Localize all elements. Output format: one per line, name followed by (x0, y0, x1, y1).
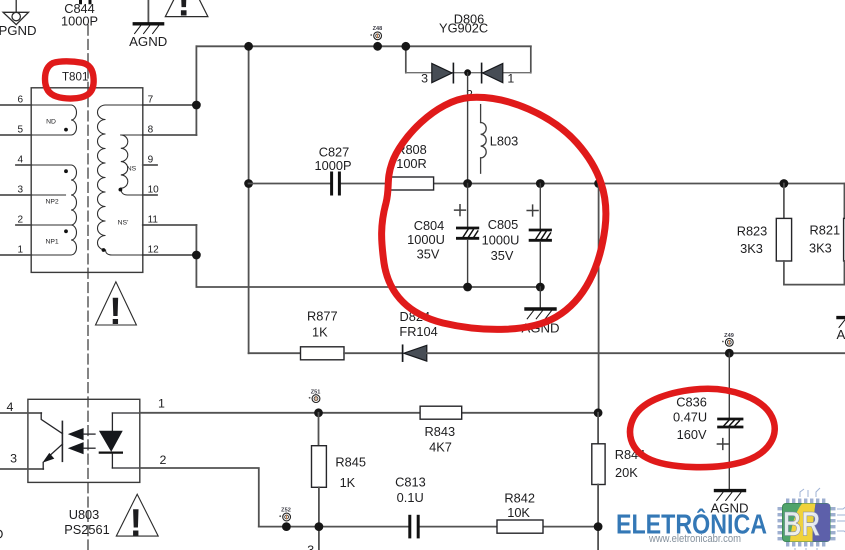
test point Z51 (309, 389, 321, 402)
svg-text:35V: 35V (491, 248, 514, 263)
svg-text:T801: T801 (62, 71, 88, 84)
svg-text:1000U: 1000U (482, 232, 520, 247)
polarity dot ND (64, 128, 68, 132)
junction C804 bottom (463, 283, 472, 292)
svg-text:U803: U803 (69, 507, 100, 522)
resistor R844 20K (597, 413, 599, 444)
svg-text:0.47U: 0.47U (673, 410, 707, 425)
transformer T801 (0, 71, 159, 273)
svg-text:2: 2 (17, 215, 23, 226)
svg-text:100R: 100R (396, 156, 427, 171)
optocoupler U803 PS2561 (0, 396, 167, 482)
ground AGND symbol (top) (134, 0, 162, 34)
svg-text:3: 3 (421, 72, 428, 86)
watermark chip logo BR (778, 488, 845, 550)
junction bus / C805 (536, 179, 545, 188)
ground AGND symbol (right edge, clipped) (838, 318, 845, 328)
red annotation circle around C836 (630, 389, 775, 467)
diode D824 FR104 (402, 345, 404, 361)
svg-text:0.1U: 0.1U (397, 490, 424, 505)
svg-text:8: 8 (148, 125, 154, 136)
svg-text:6: 6 (17, 95, 23, 106)
junction D806 pin 2 node (464, 69, 471, 76)
junction R845 bottom (315, 522, 324, 531)
wire D806 lower rail (406, 72, 531, 74)
pin 3 stub (0, 468, 43, 470)
winding NP2 (pins 4-3-2) (31, 165, 76, 225)
svg-text:L803: L803 (490, 133, 518, 148)
capacitor C813 0.1U (410, 516, 418, 537)
svg-text:R843: R843 (425, 424, 456, 439)
svg-text:R842: R842 (504, 491, 535, 506)
polarity dot NP2 (64, 169, 68, 173)
junction bus / vertical to R843 row (594, 179, 603, 188)
wire pin7 stub (143, 104, 197, 106)
phototransistor (41, 413, 62, 469)
polarity dot NS (119, 188, 123, 192)
svg-text:1000P: 1000P (314, 158, 351, 173)
wire D806 pin2 down to main bus (467, 73, 469, 184)
svg-text:C804: C804 (414, 218, 445, 233)
svg-text:10: 10 (148, 185, 160, 196)
wire secondary return row (pin12 to caps bottom) (143, 224, 197, 226)
svg-text:160V: 160V (677, 427, 707, 442)
svg-text:AGND: AGND (129, 34, 167, 49)
pin 10 stub (143, 194, 157, 196)
junction C805 bottom (536, 283, 545, 292)
svg-text:BR: BR (783, 506, 820, 544)
junction R845 top (314, 408, 323, 417)
watermark logo text ELETRONICABR (616, 508, 767, 545)
svg-text:PGND: PGND (0, 23, 37, 38)
diode D806 element b (pin 1 side) (483, 63, 503, 82)
warning triangle (below transformer) (96, 282, 137, 325)
test point Z49 (722, 333, 734, 346)
resistor R877 row wire (249, 352, 301, 354)
wire U803 pin1 row to R843/R844 (140, 412, 420, 414)
polarity dot NS' (102, 248, 106, 252)
svg-text:4: 4 (17, 155, 23, 166)
capacitor C844 (plates cut at top edge) (81, 0, 91, 3)
wire R877 to D824 (344, 352, 402, 354)
red annotation circle around T801 (45, 61, 94, 98)
junction pin7 node (192, 101, 201, 110)
light arrow a (68, 428, 84, 440)
svg-text:R823: R823 (737, 223, 768, 238)
capacitor C836 0.47U 160V (717, 353, 742, 489)
svg-text:1: 1 (507, 72, 514, 86)
svg-text:www.eletronicabr.com: www.eletronicabr.com (648, 533, 741, 545)
svg-text:10K: 10K (507, 505, 530, 520)
svg-text:C805: C805 (488, 217, 519, 232)
junction D806 left bracket on top bus (401, 42, 410, 51)
svg-text:!: ! (109, 291, 122, 333)
wire D806 left bracket (405, 46, 407, 72)
transformer body (31, 88, 143, 273)
ground PGND symbol (3, 0, 28, 25)
resistor R823 3K3 (776, 179, 845, 285)
winding NS (pins 8-10) (121, 135, 143, 195)
svg-text:3: 3 (307, 543, 314, 550)
svg-text:R821: R821 (810, 223, 841, 238)
svg-text:FR104: FR104 (399, 324, 437, 339)
resistor R845 1K (318, 413, 320, 446)
junction pin 12 node (192, 251, 201, 260)
svg-text:3K3: 3K3 (740, 241, 763, 256)
junction R844 bottom (594, 522, 603, 531)
wire U803 pin2 to bottom row (140, 468, 259, 527)
svg-text:C836: C836 (676, 395, 707, 410)
capacitor C827 (332, 173, 340, 194)
ground AGND symbol (under C836) (716, 491, 745, 501)
svg-text:5: 5 (17, 125, 23, 136)
svg-text:NP1: NP1 (45, 238, 58, 245)
svg-text:PS2561: PS2561 (64, 522, 110, 537)
warning triangle (top, clipped) (165, 0, 208, 17)
svg-text:1: 1 (158, 396, 165, 410)
svg-text:C813: C813 (395, 475, 426, 490)
ground AGND symbol (under C805) (526, 287, 555, 319)
svg-text:9: 9 (148, 155, 154, 166)
svg-text:NS': NS' (118, 219, 129, 226)
junction main bus x248.6 (244, 179, 253, 188)
dual diode D806 YG902C (401, 11, 530, 101)
wire D806 right bracket (530, 46, 532, 72)
svg-text:R845: R845 (335, 454, 366, 469)
pin 5 stub (0, 134, 31, 136)
svg-text:AGND: AGND (837, 327, 845, 342)
junction R844 top (594, 408, 603, 417)
warning triangle (below U803) (116, 494, 158, 536)
wire left corner vertical to transformer pins 7/8 (195, 46, 197, 135)
resistor R808 (390, 177, 433, 190)
light arrow b (68, 442, 84, 454)
capacitor C805 1000U 35V (electrolytic) (527, 184, 550, 288)
svg-text:4: 4 (7, 400, 14, 414)
junction top bus x248.6 (244, 42, 253, 51)
svg-text:Z48: Z48 (373, 26, 383, 32)
pin 4 stub (0, 412, 41, 414)
wire D824 to right edge (427, 352, 845, 354)
wire pin8 stub (143, 134, 197, 136)
junction bus / C804 / D806 pin2 (463, 179, 472, 188)
pin 2 wire (112, 467, 139, 469)
svg-text:11: 11 (148, 215, 159, 226)
red annotation circle around R808/L803/C804/C805 (382, 97, 606, 329)
svg-text:4K7: 4K7 (429, 439, 452, 454)
pin 9 stub (143, 164, 157, 166)
svg-text:12: 12 (148, 245, 160, 256)
svg-text:1000P: 1000P (61, 13, 98, 28)
svg-text:!: ! (177, 0, 190, 25)
resistor R842 10K (497, 520, 543, 533)
pin 3 stub (0, 194, 31, 196)
LED (pins 1-2) (111, 413, 113, 431)
svg-text:D: D (0, 527, 3, 542)
junction C836 top node (725, 349, 734, 358)
svg-text:2: 2 (160, 453, 167, 467)
svg-text:1K: 1K (312, 325, 328, 340)
svg-text:3: 3 (10, 452, 17, 466)
diode D806 element a (pin 3 side) (432, 63, 452, 82)
resistor R877 (301, 347, 345, 360)
test point Z48 (370, 26, 382, 51)
wire vertical bus-to-R843 row (598, 184, 600, 413)
svg-text:3K3: 3K3 (809, 240, 832, 255)
pin 2 stub (16, 224, 31, 226)
pin 1 stub (0, 254, 31, 256)
inductor L803 (481, 105, 487, 174)
winding NP1 (pins 2-1) (31, 225, 76, 255)
svg-text:NP2: NP2 (45, 198, 58, 205)
svg-text:20K: 20K (615, 465, 638, 480)
svg-text:YG902C: YG902C (439, 21, 488, 36)
svg-text:3: 3 (17, 185, 23, 196)
wire main output bus (249, 183, 330, 185)
pin 4 stub (16, 164, 31, 166)
winding ND (pins 6-5) (31, 105, 76, 135)
winding NS' long secondary (pins 7-12) (98, 105, 143, 255)
svg-text:NS: NS (127, 165, 137, 172)
test point Z52 (279, 508, 291, 521)
pin 1 wire (112, 412, 139, 414)
svg-text:1000U: 1000U (407, 232, 445, 247)
svg-text:R877: R877 (307, 308, 338, 323)
svg-text:1K: 1K (340, 475, 356, 490)
isolation barrier dashed line (87, 25, 89, 550)
capacitor C804 1000U 35V (electrolytic) (455, 184, 478, 288)
wire bottom row (259, 526, 408, 528)
wire top bus (196, 45, 530, 47)
svg-text:1: 1 (17, 245, 23, 256)
svg-text:ND: ND (46, 118, 56, 125)
polarity dot NP1 (64, 229, 68, 233)
svg-text:35V: 35V (417, 246, 440, 261)
junction Z52 node (282, 522, 291, 531)
resistor R821 3K3 (clipped at right edge) (844, 184, 845, 285)
wire vertical x248.6 top bus to R877 row (248, 46, 250, 353)
resistor R843 4K7 (420, 406, 462, 419)
svg-text:!: ! (129, 502, 142, 544)
pin 6 stub (0, 104, 31, 106)
svg-text:7: 7 (148, 95, 154, 106)
